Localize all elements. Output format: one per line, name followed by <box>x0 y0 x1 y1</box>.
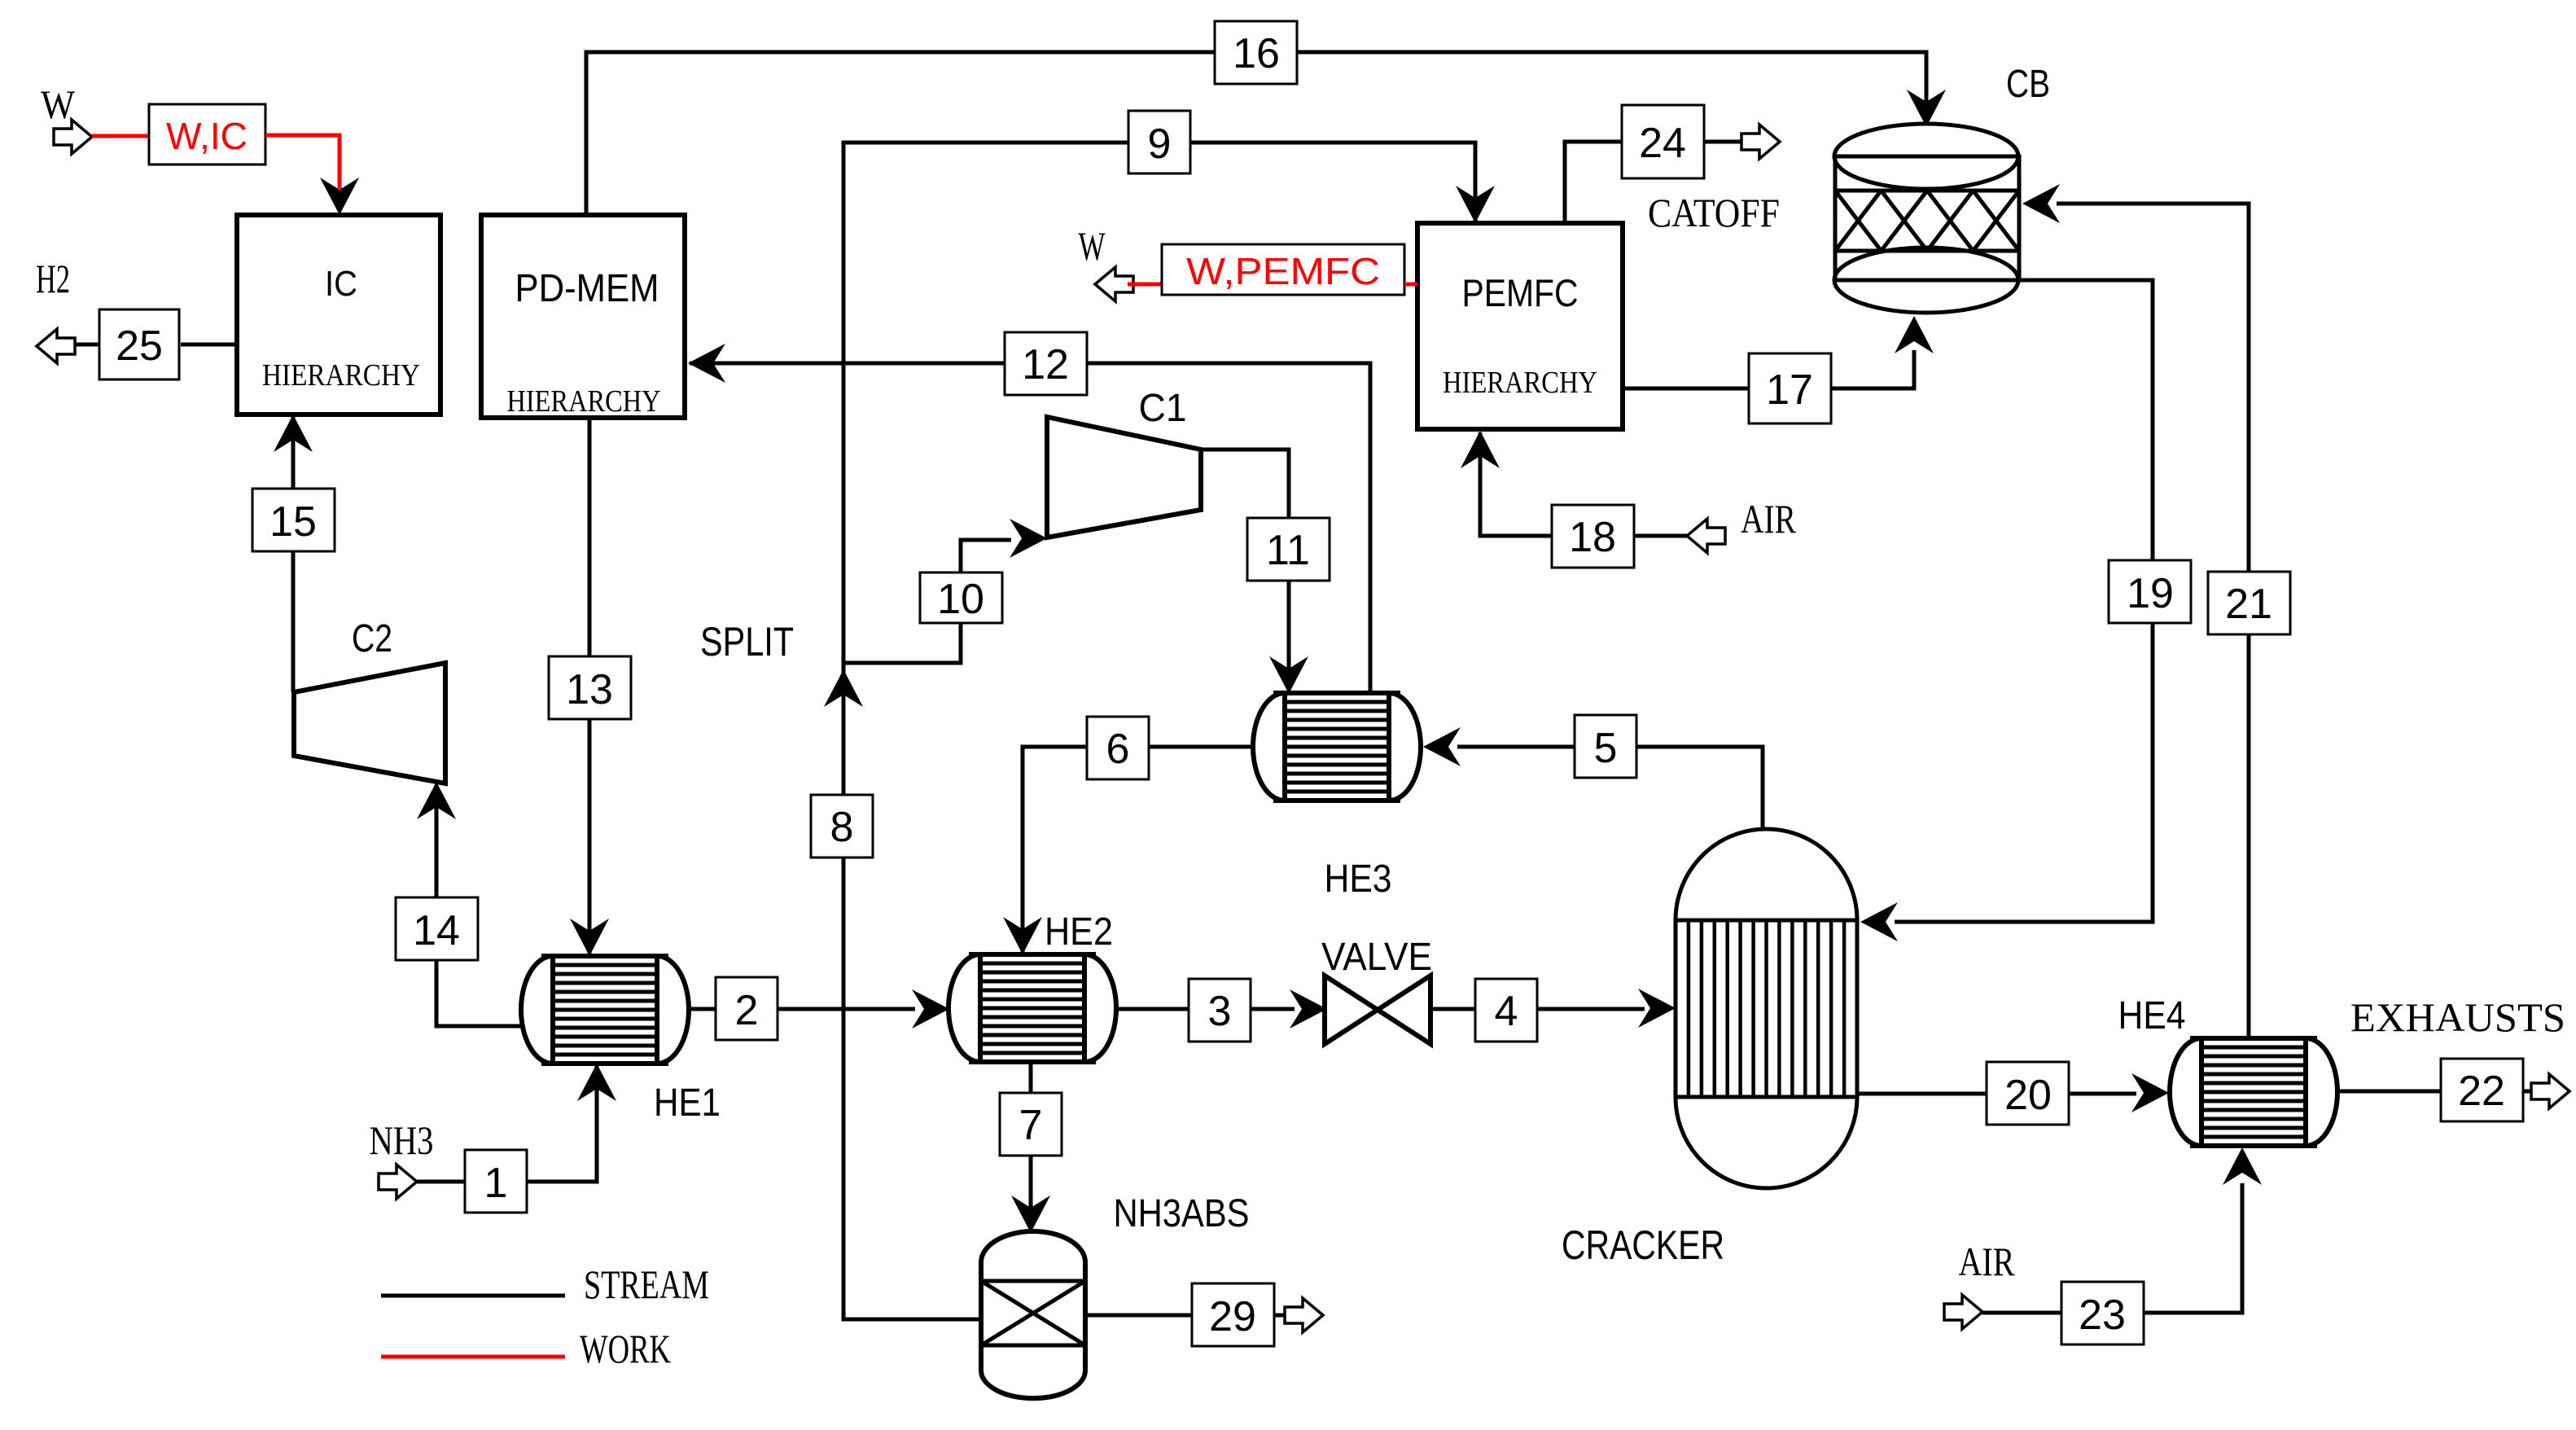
svg-text:2: 2 <box>735 987 759 1034</box>
svg-text:14: 14 <box>413 907 460 954</box>
arrow into PEMFC bottom <box>1461 431 1500 468</box>
svg-text:15: 15 <box>269 498 317 546</box>
stream 11 line <box>1201 450 1289 692</box>
svg-text:5: 5 <box>1594 725 1618 772</box>
svg-text:1: 1 <box>484 1160 508 1207</box>
stream 13 line <box>588 418 592 954</box>
svg-text:NH3ABS: NH3ABS <box>1114 1192 1250 1235</box>
stream tag 6 <box>1087 717 1149 779</box>
work line W,PEMFC right <box>1404 283 1417 287</box>
svg-text:16: 16 <box>1233 30 1280 77</box>
svg-text:PEMFC: PEMFC <box>1462 271 1579 314</box>
svg-text:CB: CB <box>2006 63 2050 106</box>
heat exchanger HE1 <box>521 956 553 1064</box>
svg-text:25: 25 <box>116 322 163 370</box>
stream 6 line <box>1023 747 1255 953</box>
arrow into CB top <box>1907 90 1946 127</box>
svg-text:4: 4 <box>1495 988 1518 1035</box>
svg-text:HE2: HE2 <box>1045 910 1113 954</box>
stream 1 line b <box>527 1065 597 1182</box>
H2 outlet arrow <box>37 329 75 363</box>
valve VALVE <box>1325 976 1430 1044</box>
heat exchanger HE4 <box>2170 1038 2201 1146</box>
stream tag 15 <box>252 489 335 551</box>
stream 24 line <box>1565 142 1623 223</box>
stream 8 line <box>843 666 981 1319</box>
svg-text:6: 6 <box>1106 726 1130 773</box>
svg-text:HIERARCHY: HIERARCHY <box>507 384 661 419</box>
svg-text:H2: H2 <box>36 256 70 301</box>
reactor CRACKER <box>1676 829 1857 1188</box>
stream 15 line <box>291 415 296 692</box>
stream tag 25 <box>99 309 179 379</box>
AIR inlet arrow (23) <box>1944 1295 1982 1329</box>
stream 5 line <box>1457 747 1763 831</box>
stream 22 line <box>2337 1090 2440 1094</box>
stream tag 2 <box>716 977 778 1040</box>
combustor CB <box>1834 124 2018 189</box>
svg-text:WORK: WORK <box>580 1326 671 1371</box>
stream tag 22 <box>2441 1059 2523 1121</box>
svg-text:AIR: AIR <box>1741 496 1797 542</box>
W inlet arrow (work IC) <box>54 120 92 154</box>
svg-text:AIR: AIR <box>1959 1239 2016 1284</box>
stream 12 line <box>690 363 1370 695</box>
svg-text:IC: IC <box>325 264 357 304</box>
W outlet arrow (work PEMFC) <box>1095 267 1133 301</box>
svg-text:VALVE: VALVE <box>1321 936 1432 979</box>
heat exchanger HE2 <box>948 954 980 1062</box>
svg-text:11: 11 <box>1266 527 1310 574</box>
svg-text:PD-MEM: PD-MEM <box>515 267 659 310</box>
stream tag 12 <box>1005 332 1087 395</box>
arrow into HE1 top <box>570 919 609 956</box>
absorber NH3ABS <box>981 1231 1085 1398</box>
svg-text:W,PEMFC: W,PEMFC <box>1186 250 1380 292</box>
stream tag 1 <box>465 1150 527 1213</box>
compressor C1 <box>1047 417 1201 537</box>
svg-text:17: 17 <box>1766 366 1813 414</box>
stream 16 line <box>586 52 1926 215</box>
arrow into HE3 right <box>1423 727 1461 766</box>
NH3 inlet arrow <box>379 1165 417 1199</box>
stream 17 line <box>1623 350 1914 388</box>
svg-text:20: 20 <box>2004 1072 2052 1119</box>
arrow into CRACKER left <box>1638 989 1676 1028</box>
svg-text:HE3: HE3 <box>1325 858 1392 901</box>
stream 25 line out <box>73 343 99 347</box>
svg-text:EXHAUSTS: EXHAUSTS <box>2350 994 2565 1040</box>
stream 29 line <box>1085 1314 1192 1318</box>
svg-text:C2: C2 <box>352 617 392 660</box>
svg-text:7: 7 <box>1019 1102 1043 1149</box>
svg-text:19: 19 <box>2127 570 2174 617</box>
svg-text:22: 22 <box>2458 1068 2505 1115</box>
svg-text:HE4: HE4 <box>2118 994 2186 1037</box>
arrow into PD-MEM right <box>688 344 725 383</box>
stream 2 line <box>689 1007 915 1011</box>
stream 20 line <box>1857 1092 2136 1096</box>
stream 18 line <box>1480 432 1687 536</box>
svg-text:3: 3 <box>1208 988 1232 1035</box>
stream tag 16 <box>1215 21 1297 84</box>
stream tag 10 <box>920 572 1002 623</box>
stream tag 21 <box>2208 572 2290 634</box>
arrow into IC bottom <box>274 415 313 452</box>
stream tag 13 <box>549 656 631 719</box>
svg-text:W: W <box>1079 223 1106 269</box>
stream 10 line <box>843 540 1011 663</box>
AIR inlet arrow (18) <box>1687 519 1725 553</box>
stream 29 line out <box>1274 1314 1287 1318</box>
stream tag 14 <box>396 897 478 960</box>
svg-text:9: 9 <box>1148 121 1172 168</box>
arrow into HE2 left <box>912 989 949 1029</box>
work label box W,PEMFC <box>1162 244 1404 295</box>
stream tag 9 <box>1128 111 1190 173</box>
arrow into C1 <box>1010 519 1047 558</box>
stream 3 line <box>1116 1007 1295 1011</box>
stream tag 20 <box>1987 1062 2069 1125</box>
legend WORK line <box>381 1355 565 1359</box>
stream tag 7 <box>1000 1093 1062 1156</box>
arrow into CRACKER right <box>1860 902 1898 941</box>
arrow into CB right <box>2022 184 2060 223</box>
svg-text:W: W <box>41 81 76 127</box>
work line W,IC to IC <box>265 135 340 189</box>
stream 22 line out <box>2522 1090 2534 1094</box>
svg-text:18: 18 <box>1569 514 1616 561</box>
outlet arrow 22 <box>2531 1074 2569 1108</box>
arrow up at SPLIT <box>824 669 863 707</box>
svg-text:CRACKER: CRACKER <box>1562 1222 1724 1268</box>
svg-text:CATOFF: CATOFF <box>1648 190 1780 235</box>
arrow into HE3 top <box>1269 656 1308 694</box>
stream 4 line <box>1430 1007 1645 1011</box>
stream 23 line b <box>2144 1183 2242 1313</box>
stream 19 line <box>1895 280 2153 922</box>
hierarchy block PEMFC <box>1417 223 1623 429</box>
svg-text:STREAM: STREAM <box>584 1261 709 1307</box>
work label box W,IC <box>149 104 265 164</box>
svg-text:21: 21 <box>2225 581 2272 628</box>
svg-text:8: 8 <box>830 804 854 851</box>
hierarchy block PD-MEM <box>481 215 685 418</box>
arrow into CB bottom <box>1895 316 1934 353</box>
svg-text:HE1: HE1 <box>654 1081 721 1125</box>
stream tag 24 <box>1622 105 1704 178</box>
stream 1 line <box>417 1180 466 1184</box>
stream 24 line out <box>1703 140 1744 144</box>
work line W,PEMFC left <box>1128 283 1162 287</box>
stream 23 line <box>1982 1311 2061 1315</box>
arrow into IC top <box>320 178 359 215</box>
svg-text:29: 29 <box>1209 1293 1256 1340</box>
svg-text:C1: C1 <box>1139 387 1187 430</box>
svg-text:10: 10 <box>937 576 984 623</box>
svg-text:NH3: NH3 <box>370 1117 434 1163</box>
stream tag 17 <box>1749 353 1831 423</box>
svg-text:23: 23 <box>2079 1292 2126 1339</box>
stream tag 29 <box>1192 1283 1274 1346</box>
arrow into HE4 bottom <box>2223 1147 2262 1185</box>
stream tag 8 <box>811 795 873 858</box>
stream 9 line <box>843 143 1475 666</box>
outlet arrow 24 <box>1741 125 1780 159</box>
work line W,IC <box>92 134 149 138</box>
svg-text:HIERARCHY: HIERARCHY <box>1443 366 1597 400</box>
svg-text:SPLIT: SPLIT <box>700 619 794 665</box>
svg-text:12: 12 <box>1022 341 1069 388</box>
arrow into VALVE <box>1290 989 1327 1029</box>
svg-text:W,IC: W,IC <box>166 115 248 157</box>
arrow into HE1 bottom <box>577 1064 616 1101</box>
arrow into NH3ABS top <box>1011 1195 1050 1233</box>
stream tag 5 <box>1575 715 1636 778</box>
stream 21 line <box>2057 204 2249 1038</box>
arrow into HE4 left <box>2131 1073 2169 1112</box>
stream 14 line <box>436 785 524 1026</box>
stream 7 line <box>1029 1060 1033 1231</box>
svg-text:HIERARCHY: HIERARCHY <box>262 358 420 393</box>
hierarchy block IC <box>237 215 440 415</box>
legend STREAM line <box>381 1294 565 1298</box>
arrow into C2 bottom <box>417 782 456 819</box>
arrow into HE2 top <box>1003 917 1042 954</box>
stream tag 23 <box>2061 1282 2144 1344</box>
stream tag 19 <box>2109 560 2191 623</box>
svg-text:13: 13 <box>566 666 613 713</box>
compressor C2 <box>294 663 445 783</box>
heat exchanger HE3 <box>1253 693 1285 801</box>
stream tag 11 <box>1247 518 1330 581</box>
svg-text:24: 24 <box>1639 120 1686 167</box>
arrow into PEMFC top <box>1456 186 1495 223</box>
stream 25 line <box>181 343 237 347</box>
stream tag 4 <box>1475 979 1537 1042</box>
stream tag 3 <box>1189 979 1251 1042</box>
stream tag 18 <box>1552 505 1634 568</box>
outlet arrow 29 <box>1285 1298 1323 1332</box>
